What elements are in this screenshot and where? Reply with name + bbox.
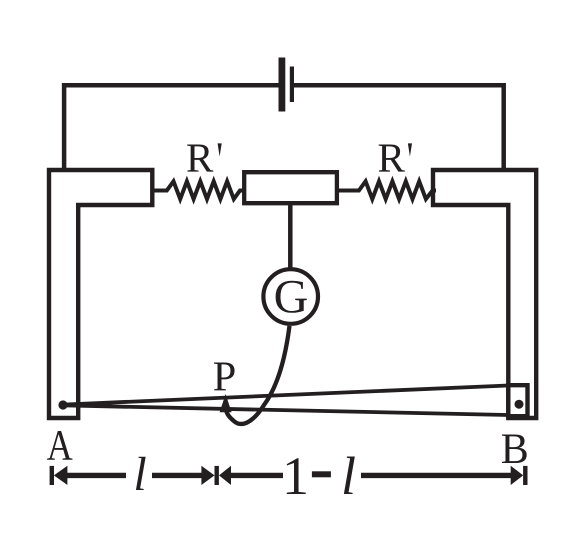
svg-text:P: P (213, 354, 237, 401)
svg-text:G: G (274, 270, 309, 323)
svg-text:1: 1 (282, 446, 309, 506)
svg-text:l: l (133, 448, 146, 501)
svg-text:R: R (186, 135, 214, 181)
svg-text:l: l (341, 446, 356, 506)
svg-text:R: R (378, 135, 406, 181)
svg-text:B: B (501, 425, 529, 473)
svg-text:A: A (47, 422, 73, 470)
